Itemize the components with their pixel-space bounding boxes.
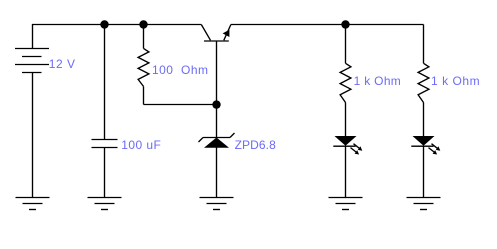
svg-text:1 k Ohm: 1 k Ohm: [354, 74, 401, 88]
svg-text:100 Ohm: 100 Ohm: [152, 63, 208, 77]
svg-text:100 uF: 100 uF: [121, 138, 161, 152]
svg-text:12 V: 12 V: [49, 57, 75, 71]
svg-text:1 k Ohm: 1 k Ohm: [431, 74, 480, 88]
svg-text:ZPD6.8: ZPD6.8: [235, 138, 277, 152]
